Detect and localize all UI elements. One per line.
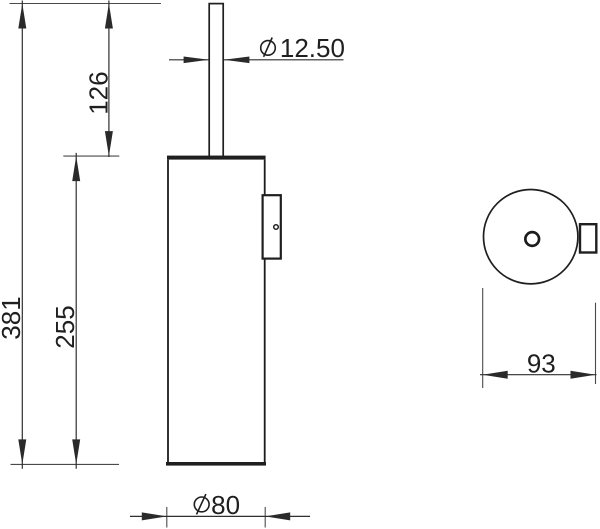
bracket screw hole	[274, 225, 279, 230]
brush handle	[209, 4, 223, 157]
svg-text:12.50: 12.50	[280, 33, 345, 63]
top view canister circle	[484, 190, 578, 284]
dim 93 line	[480, 371, 597, 379]
canister body right side	[264, 160, 266, 463]
svg-text:255: 255	[50, 305, 80, 348]
dim 12.50 left line with arrow	[169, 57, 209, 64]
mid extension line	[63, 155, 119, 157]
dim 93 extension right	[595, 303, 597, 384]
top view screw hole	[525, 232, 539, 246]
dim 12.50 right line with arrow	[224, 57, 344, 64]
bottom extension line	[11, 463, 120, 465]
canister base	[166, 462, 266, 466]
svg-text:93: 93	[527, 349, 556, 379]
dim 80 extension right	[264, 507, 266, 528]
dimension 255 line	[72, 153, 80, 469]
canister lid	[167, 156, 266, 160]
svg-text:381: 381	[0, 296, 26, 339]
dim 80 line	[130, 512, 310, 520]
top view bracket tab	[580, 224, 596, 252]
dim 80 extension left	[166, 507, 168, 528]
wall bracket	[263, 195, 281, 258]
dim 93 extension left	[482, 288, 484, 388]
diameter symbol 12.50	[261, 38, 276, 57]
diameter symbol 80	[194, 494, 209, 514]
svg-text:126: 126	[83, 71, 113, 114]
dimension 126 line	[105, 1, 113, 158]
top extension line	[10, 3, 162, 5]
dimension 381 line	[18, 1, 26, 469]
canister body left side	[167, 160, 169, 463]
svg-text:80: 80	[211, 490, 240, 520]
